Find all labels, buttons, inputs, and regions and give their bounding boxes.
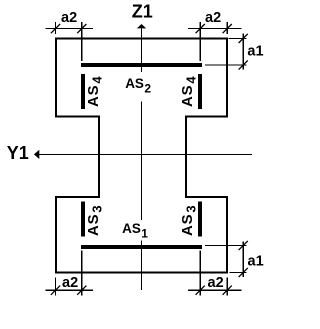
- svg-text:a1: a1: [247, 43, 263, 59]
- svg-text:a1: a1: [248, 254, 264, 270]
- svg-text:a2: a2: [208, 275, 224, 291]
- svg-text:a2: a2: [62, 275, 78, 291]
- svg-text:Z1: Z1: [132, 2, 153, 22]
- svg-text:Y1: Y1: [7, 143, 29, 163]
- svg-text:a2: a2: [205, 10, 221, 26]
- svg-text:a2: a2: [61, 10, 77, 26]
